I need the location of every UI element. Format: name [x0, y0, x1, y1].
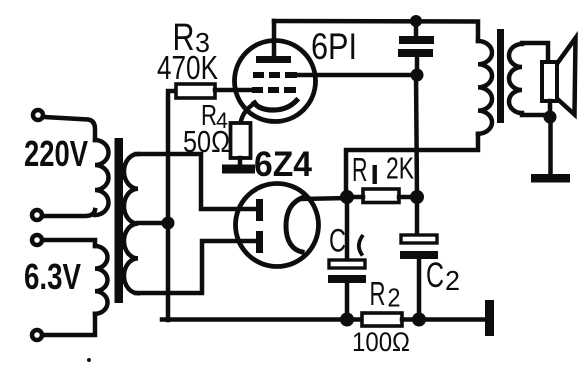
resistor R4 [231, 123, 251, 158]
svg-text:C: C [426, 256, 444, 295]
wire T3 to 6.3V winding top [43, 240, 95, 246]
wire 6Z4 cathode to R1 left node [301, 198, 347, 199]
grid g2 of 6P1 (dashes) [253, 72, 264, 78]
wire OPT primary bottom feed [346, 134, 478, 197]
capacitor C3 (across primary) [414, 21, 419, 36]
capacitor C1 [345, 198, 350, 260]
wire speaker ground lead [548, 117, 553, 175]
resistor R2 [362, 313, 402, 326]
wire anode lead up [272, 21, 277, 56]
svg-text:220V: 220V [24, 133, 88, 174]
wire top rail (anode to OPT primary) [274, 21, 478, 41]
core of power transformer [115, 138, 124, 303]
wire secondary bottom to speaker ground node [522, 113, 550, 118]
tube 6Z4 envelope [236, 184, 319, 267]
wire B+ vertical line [416, 75, 417, 197]
terminal T1 (220V top) [33, 110, 43, 120]
ground (R4) [222, 165, 255, 174]
wire center tap [138, 221, 168, 226]
terminal T2 (220V bottom) [32, 210, 42, 220]
wire ground rail [162, 317, 362, 322]
svg-text:2: 2 [388, 283, 401, 313]
node center tap junction [162, 217, 175, 230]
speaker LS cone [558, 38, 576, 115]
svg-text:50Ω: 50Ω [183, 124, 230, 159]
resistor R1 [363, 189, 399, 203]
terminal T3 (6.3V top) [32, 235, 42, 245]
node anode/C3 junction [410, 15, 422, 27]
svg-text:6.3V: 6.3V [24, 256, 81, 297]
plate 2 of 6Z4 [256, 231, 263, 253]
capacitor C2 [415, 197, 420, 235]
ground (main rail end bar) [485, 300, 494, 336]
wire R3 right to 6P1 grid g1 [215, 88, 252, 93]
winding OPT secondary (3 loops) [509, 44, 522, 113]
cathode of 6Z4 [286, 197, 304, 252]
wire R1 right lead [399, 195, 417, 200]
wire rail right of R2 [402, 317, 486, 322]
cathode of 6P1 [255, 101, 297, 111]
svg-text:6Z4: 6Z4 [254, 145, 313, 184]
winding 220V primary (3 loops) [95, 140, 109, 215]
wire speaker bottom stub [548, 101, 553, 115]
wire R3 left lead down to ground rail [168, 91, 176, 320]
svg-text:100Ω: 100Ω [352, 327, 410, 357]
plate 1 of 6Z4 [256, 199, 263, 221]
wire R4 bottom stub [238, 158, 243, 166]
svg-text:2: 2 [445, 265, 460, 296]
node speaker ground junction [544, 111, 557, 124]
tube 6P1 envelope [235, 41, 316, 122]
node R1 right junction [410, 190, 424, 204]
wire R1 left lead [347, 195, 363, 200]
node C1 ground junction [340, 313, 354, 327]
svg-text:6PI: 6PI [311, 26, 357, 67]
wire g2 to B+ node [297, 73, 416, 78]
wire secondary top to speaker [522, 43, 548, 62]
winding 6.3V (3 loops) [95, 246, 108, 314]
anode of 6P1 [256, 56, 291, 63]
ink speck [87, 358, 91, 362]
wire 6P1 cathode to R4 [241, 103, 256, 123]
node R1 left junction [340, 190, 354, 204]
wire T2 to winding bottom [43, 210, 95, 216]
wire secondary top to 6Z4 upper plate [136, 154, 257, 209]
winding OPT primary (4 loops) [478, 41, 492, 134]
svg-text:470K: 470K [157, 49, 218, 86]
node g2/C3 junction [411, 69, 424, 82]
ground (speaker) [531, 174, 570, 183]
wire T1 to primary winding top [44, 117, 95, 140]
grid g1 of 6P1 (dashes) [252, 87, 263, 93]
speaker LS driver [542, 62, 557, 101]
svg-text:C: C [329, 223, 346, 259]
node C2 ground junction [412, 313, 426, 327]
svg-text:R: R [352, 151, 368, 188]
svg-text:R: R [370, 275, 386, 312]
svg-text:2K: 2K [386, 151, 414, 186]
wire secondary bottom to 6Z4 lower plate [136, 241, 257, 293]
resistor R3 [176, 84, 215, 98]
core of output transformer [497, 29, 504, 123]
wire T4 to 6.3V winding bottom [43, 314, 95, 335]
winding HV secondary (4 loops, center tapped) [124, 154, 138, 293]
terminal T4 (6.3V bottom) [32, 330, 42, 340]
